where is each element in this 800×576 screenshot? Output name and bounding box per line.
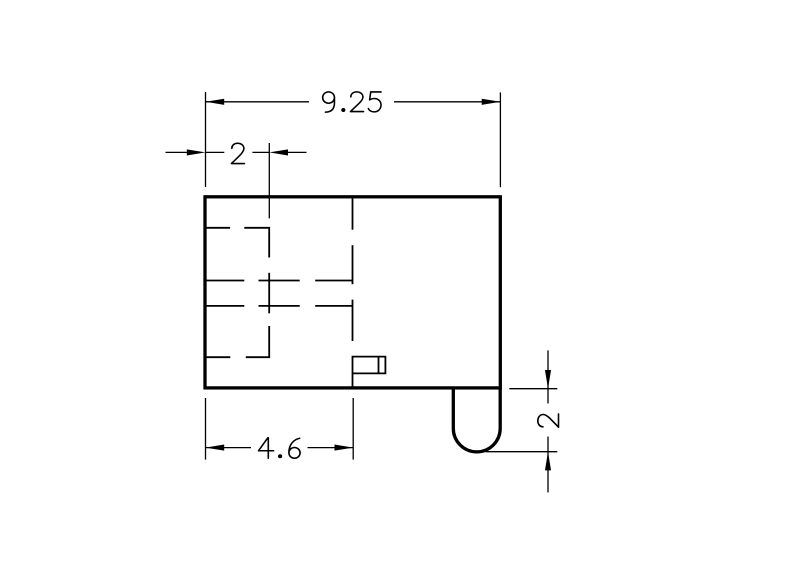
dimension 2 (top) left arrowhead xyxy=(187,149,206,155)
dimension 2 (top) text xyxy=(231,143,244,163)
dimension 4.6 left arrowhead xyxy=(206,445,225,451)
contact detail (small rectangle) xyxy=(353,357,386,388)
hidden line V1 (slot vertical centre) xyxy=(246,273,269,357)
dimension 4.6 extension lines xyxy=(206,398,354,460)
connector body outline xyxy=(205,197,500,388)
dimension 9.25 line xyxy=(206,101,501,103)
dimension 4.6 text xyxy=(259,438,301,458)
hidden line H2 (middle slot upper edge) xyxy=(206,280,352,282)
dimension 2 (right) extension lines xyxy=(485,389,557,452)
dimension 9.25 extension lines xyxy=(206,92,501,187)
dimension 9.25 right arrowhead xyxy=(482,99,501,105)
dimension 2 (top) extension line xyxy=(268,143,270,218)
dimension 2 (top) line xyxy=(166,151,307,153)
dimension 2 (right) top arrowhead xyxy=(545,370,551,389)
mounting peg (rounded tab) xyxy=(453,388,500,452)
dimension 9.25 left arrowhead xyxy=(206,99,225,105)
dimension 2 (right) text (rotated) xyxy=(538,414,559,427)
hidden line H3 (middle slot lower edge) xyxy=(206,305,352,307)
dimension 2 (right) bottom arrowhead xyxy=(545,452,551,471)
hidden line H1 (upper slot top edge) xyxy=(206,228,269,258)
dimension 2 (right) line xyxy=(547,350,549,492)
dimension 4.6 right arrowhead xyxy=(335,445,354,451)
hidden line V2 (internal wall at 4.6) xyxy=(352,198,354,341)
dimension 4.6 line xyxy=(206,447,354,449)
dimension 9.25 text xyxy=(323,92,381,112)
hidden line H4 (lower slot bottom edge) xyxy=(206,356,230,358)
dimension 2 (top) right arrowhead xyxy=(269,149,288,155)
